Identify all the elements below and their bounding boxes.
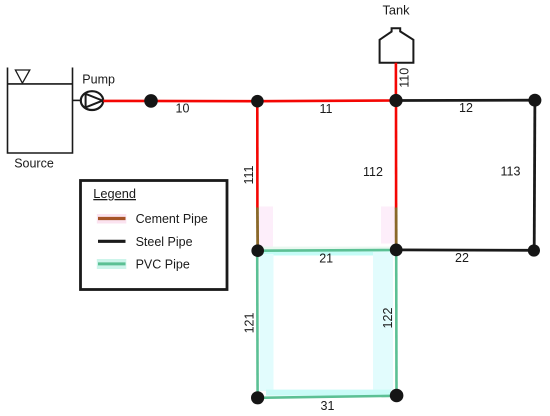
legend pvc halo <box>97 259 127 269</box>
pipe 121 pvc wire <box>256 251 259 398</box>
svg-text:Steel Pipe: Steel Pipe <box>136 235 193 249</box>
node junction 11/110/12/112 <box>389 94 402 107</box>
halo pink on pipe 111 lower segment <box>259 207 273 249</box>
pipe 10 cement wire <box>103 100 257 103</box>
pipe 122 pvc wire <box>395 250 398 396</box>
legend pvc pipe swatch <box>98 262 126 265</box>
svg-text:121: 121 <box>243 313 257 334</box>
svg-text:Legend: Legend <box>93 186 136 201</box>
legend cement pipe swatch <box>98 217 126 220</box>
pipe 11 cement wire <box>257 99 396 102</box>
pipe 111 cement wire upper <box>256 101 259 207</box>
pipe 110 cement wire <box>395 63 398 101</box>
svg-text:Pump: Pump <box>82 72 115 86</box>
svg-text:10: 10 <box>176 102 190 116</box>
halo pink on pipe 112 lower segment <box>381 207 395 244</box>
svg-text:113: 113 <box>501 165 521 179</box>
tank T1 symbol <box>380 28 414 63</box>
svg-text:Tank: Tank <box>382 3 410 18</box>
halo cyan below pipe 21 <box>262 252 393 256</box>
svg-text:11: 11 <box>320 102 333 116</box>
source water level triangle <box>15 70 29 83</box>
svg-text:110: 110 <box>397 68 411 88</box>
halo cyan on pipe 121 <box>260 254 274 391</box>
pipe 111 overlap wire lower <box>256 208 259 251</box>
node junction 122/31 <box>390 389 404 403</box>
halo green fade above pipe 21 <box>262 247 393 250</box>
pipe 31 pvc wire <box>258 396 397 398</box>
svg-text:111: 111 <box>242 165 256 184</box>
legend steel pipe swatch <box>98 240 126 243</box>
node junction 111/21/121 <box>251 244 264 257</box>
halo cyan above pipe 31 <box>266 390 391 396</box>
pipe 12 steel wire <box>396 99 535 102</box>
svg-text:21: 21 <box>319 251 333 265</box>
halo cyan on pipe 122 <box>373 252 393 390</box>
svg-text:Source: Source <box>14 156 54 170</box>
source water surface line <box>8 83 73 85</box>
node junction 121/31 <box>251 391 264 404</box>
pump P1 symbol <box>81 91 103 110</box>
pump suction stub wire <box>73 99 82 101</box>
node junction 112/21/22/122 <box>390 244 403 257</box>
pipe 112 overlap wire lower <box>395 208 398 250</box>
svg-text:22: 22 <box>455 251 469 265</box>
svg-text:Cement Pipe: Cement Pipe <box>136 212 208 226</box>
svg-text:PVC Pipe: PVC Pipe <box>136 257 190 271</box>
pipe 113 steel wire <box>533 100 537 250</box>
pipe 22 steel wire <box>396 248 534 251</box>
pipe 112 cement wire upper <box>395 101 398 208</box>
pipe 21 pvc wire <box>258 249 397 252</box>
svg-text:112: 112 <box>363 165 383 179</box>
svg-text:122: 122 <box>381 308 395 329</box>
node on pipe 10 <box>144 94 158 108</box>
node junction 10/11/111 <box>251 95 264 108</box>
node junction 12/113 <box>528 94 541 107</box>
svg-text:12: 12 <box>459 101 473 115</box>
source reservoir outline <box>8 68 73 154</box>
svg-text:31: 31 <box>321 399 335 413</box>
legend box <box>81 181 228 290</box>
legend cement halo <box>97 214 127 224</box>
node junction 113/22 <box>528 244 540 256</box>
